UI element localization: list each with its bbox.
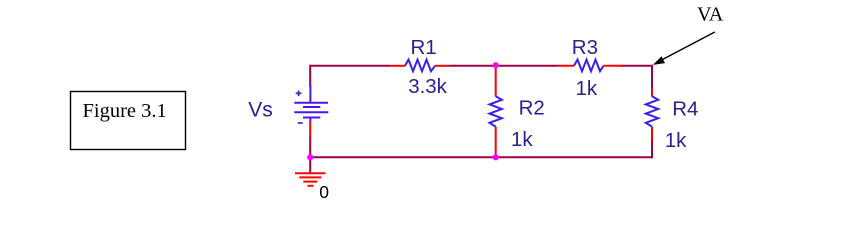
wire R4 bottom to rail	[651, 141, 653, 159]
svg-text:VA: VA	[697, 4, 724, 26]
VA pointer arrow	[653, 32, 715, 65]
wire top rail middle (R1 to R3)	[450, 65, 558, 67]
ground pin wire	[309, 157, 311, 172]
svg-text:Figure 3.1: Figure 3.1	[83, 100, 167, 122]
wire to ground node	[309, 137, 311, 158]
figure box	[71, 92, 186, 150]
svg-text:R1: R1	[411, 36, 437, 59]
svg-text:1k: 1k	[665, 129, 687, 152]
resistor R2	[490, 68, 545, 155]
wire bottom rail	[310, 156, 653, 158]
svg-text:1k: 1k	[576, 77, 598, 100]
wire top rail right (R3 to corner)	[621, 65, 654, 67]
battery minus mark	[298, 122, 303, 124]
resistor R4	[646, 88, 699, 152]
svg-text:1k: 1k	[511, 128, 533, 151]
resistor R1	[389, 36, 450, 98]
svg-text:R4: R4	[672, 98, 698, 121]
wire right drop (corner to R4)	[651, 65, 653, 89]
ground bars	[295, 172, 326, 174]
junction node top (R1/R2/R3)	[493, 62, 499, 68]
Vs label	[248, 99, 273, 122]
ground 0	[295, 157, 329, 202]
svg-text:R3: R3	[572, 36, 598, 59]
voltage source Vs (battery)	[294, 85, 328, 123]
svg-text:0: 0	[319, 182, 329, 202]
wire top rail left (battery to R1)	[310, 65, 389, 67]
junction node bottom middle (R2)	[493, 154, 499, 160]
resistor R3	[557, 36, 621, 100]
svg-text:R2: R2	[519, 97, 545, 120]
junction node bottom left (battery/ground)	[307, 154, 313, 160]
battery plus mark	[296, 92, 302, 94]
wire battery negative lead	[309, 122, 311, 138]
svg-text:3.3k: 3.3k	[408, 75, 447, 98]
node VA label	[697, 4, 724, 26]
svg-text:Vs: Vs	[248, 99, 273, 122]
wire battery top drop	[309, 65, 311, 87]
